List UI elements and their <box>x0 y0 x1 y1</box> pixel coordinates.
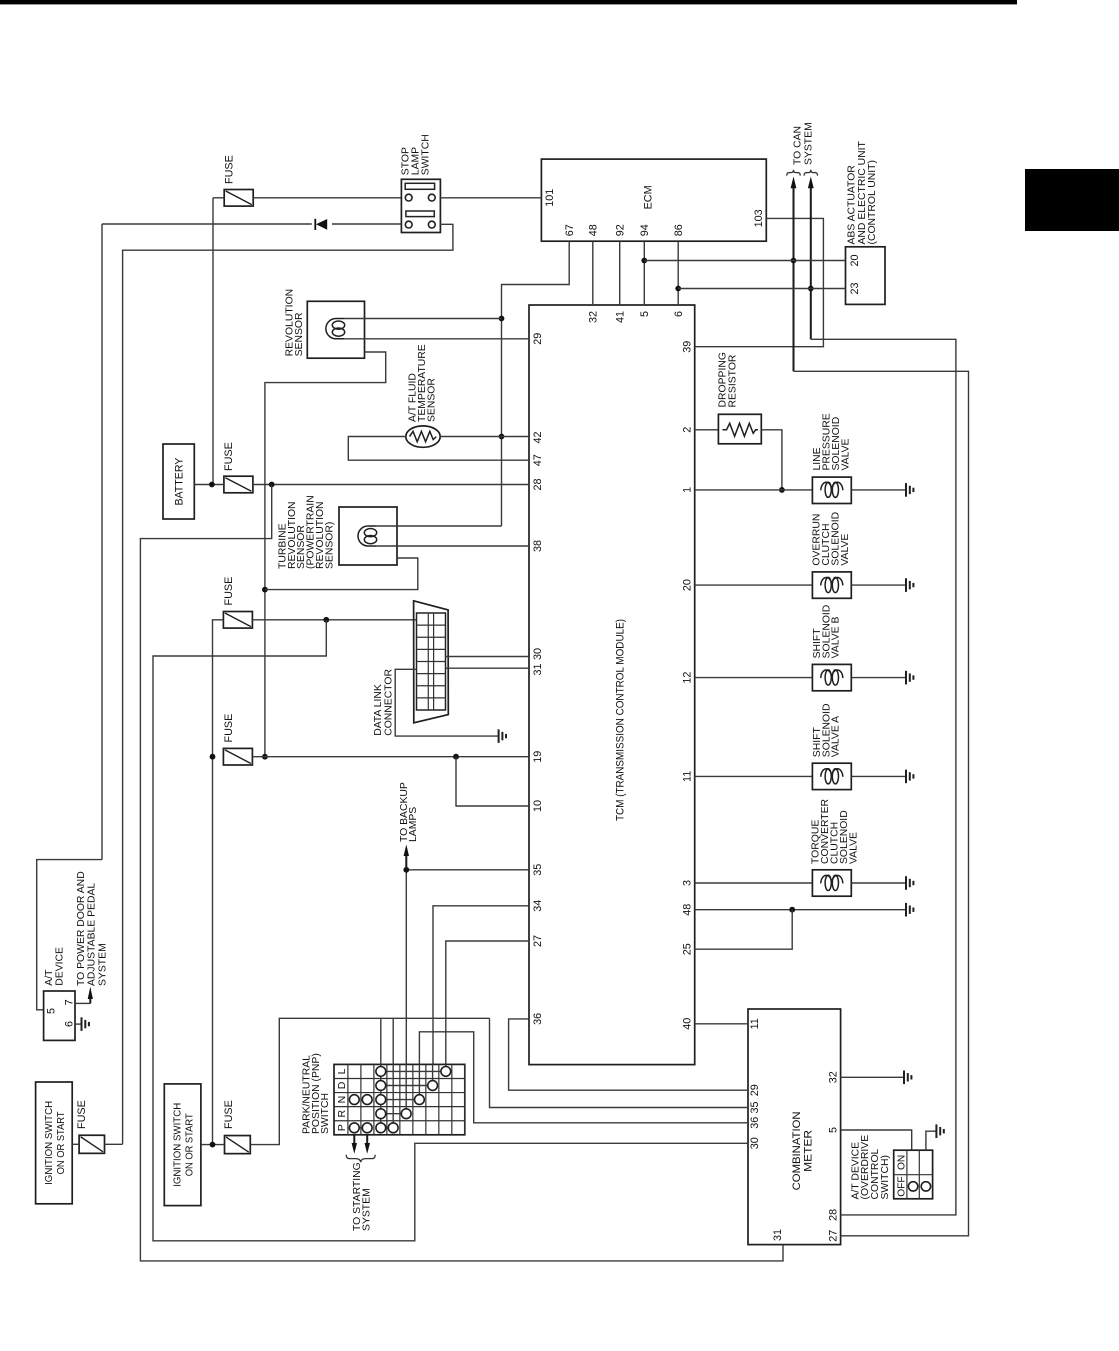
ground: TCM 48 <box>906 903 913 917</box>
junction: shield bus / revolution sensor <box>499 316 505 322</box>
svg-text:20: 20 <box>682 579 694 591</box>
shift solenoid valve B box <box>812 664 851 690</box>
svg-text:40: 40 <box>682 1018 694 1030</box>
ground: torque converter clutch solenoid <box>906 876 913 890</box>
svg-text:5: 5 <box>639 311 651 317</box>
svg-text:ON OR START: ON OR START <box>185 1113 196 1177</box>
svg-text:VALVE: VALVE <box>840 534 851 566</box>
svg-text:41: 41 <box>615 311 627 323</box>
wire: memory feed to combination meter 31 <box>140 485 783 1261</box>
wire/arrow: to backup lamps <box>405 855 407 870</box>
wire: fuse F2 to TCM 28 <box>253 484 529 486</box>
ECM box <box>541 159 766 241</box>
PNP contacts row P (c1-c2, c3-c4) <box>354 1127 367 1129</box>
svg-text:34: 34 <box>532 900 544 912</box>
svg-text:92: 92 <box>615 224 627 236</box>
svg-text:19: 19 <box>532 751 544 763</box>
svg-text:5: 5 <box>828 1127 840 1133</box>
svg-text:FUSE: FUSE <box>223 577 235 606</box>
svg-text:67: 67 <box>564 224 576 236</box>
svg-text:VALVE A: VALVE A <box>831 716 842 757</box>
wire: overdrive switch to ground <box>926 1131 937 1150</box>
svg-text:TO POWER DOOR AND: TO POWER DOOR AND <box>76 871 87 986</box>
wire: TCM 36 to combination meter 29 <box>509 1019 748 1090</box>
wire: stop lamp switch second output to ignition fuse F5 riser <box>123 224 453 1144</box>
wire: CAN-L to ABS pin 23 <box>678 288 845 290</box>
TCM box <box>529 305 695 1065</box>
junction: battery / F1 riser <box>209 482 215 488</box>
svg-text:SWITCH): SWITCH) <box>880 1155 891 1199</box>
wire: TCM 12 to shift solenoid B <box>695 677 813 679</box>
wire: fuse F1 input riser x=213 (battery node) <box>212 198 214 485</box>
junction: resistor / TCM 1 <box>779 487 785 493</box>
svg-text:12: 12 <box>682 672 694 684</box>
revolution sensor box <box>307 301 364 358</box>
svg-text:ECM: ECM <box>642 185 654 209</box>
svg-text:27: 27 <box>532 935 544 947</box>
ground: shift solenoid A <box>906 770 913 784</box>
svg-text:29: 29 <box>532 333 544 345</box>
wire: CAN-L trunk to combination meter 28 <box>811 339 956 1215</box>
overdrive control switch (A/T device) grid <box>894 1150 933 1199</box>
wire: PNP column wires inside grid <box>380 1064 382 1127</box>
data link connector shell <box>414 601 449 723</box>
svg-text:SENSOR): SENSOR) <box>324 522 335 569</box>
svg-text:94: 94 <box>639 224 651 236</box>
PNP contacts row R (c3-c5) <box>381 1113 406 1115</box>
svg-text:R: R <box>336 1109 348 1117</box>
wire: TCM 25 ground branch <box>695 910 793 950</box>
junction: CAN-H / ABS 20 branch <box>791 258 797 264</box>
ground: data link connector <box>499 729 506 743</box>
torque converter clutch solenoid valve box <box>812 870 851 896</box>
revolution sensor coil <box>326 319 345 339</box>
svg-text:42: 42 <box>532 431 544 443</box>
wire: TCM 11 to shift solenoid A <box>695 775 813 777</box>
svg-text:OFF: OFF <box>897 1176 908 1196</box>
svg-text:VALVE: VALVE <box>848 832 859 864</box>
svg-text:6: 6 <box>64 1021 76 1027</box>
wire: TCM 20 to overrun clutch solenoid <box>695 584 813 586</box>
wire: A/T device 6 to ground <box>75 1023 82 1025</box>
wire: turbine sensor shield to ground bus <box>265 558 418 590</box>
wire: solenoid to ground <box>851 775 906 777</box>
wire: solenoid to ground <box>851 489 906 491</box>
svg-text:20: 20 <box>849 254 861 266</box>
dropping resistor element <box>723 423 759 436</box>
svg-text:28: 28 <box>828 1209 840 1221</box>
svg-text:30: 30 <box>532 648 544 660</box>
junction: ground bus / pin19 feed <box>262 754 268 760</box>
svg-text:ADJUSTABLE PEDAL: ADJUSTABLE PEDAL <box>87 883 98 986</box>
svg-text:86: 86 <box>673 224 685 236</box>
wire: revolution sensor to TCM 29 <box>344 338 529 340</box>
wire: ECM 48 to TCM 32 <box>592 241 594 305</box>
ground: overdrive switch <box>936 1124 943 1138</box>
line pressure solenoid valve box <box>812 477 851 503</box>
ground: A/T device <box>82 1017 89 1031</box>
junction: ignition riser <box>210 1142 216 1148</box>
svg-text:SYSTEM: SYSTEM <box>97 943 108 986</box>
wire: fuse F3 to data link connector <box>252 619 416 621</box>
junction: ground bus / turbine sensor shield <box>262 587 268 593</box>
svg-text:SWITCH: SWITCH <box>420 134 431 175</box>
svg-text:31: 31 <box>532 663 544 675</box>
wire: F1 to stop lamp switch <box>213 197 224 199</box>
svg-text:36: 36 <box>749 1117 761 1129</box>
wire: battery to fuse F2 <box>194 484 224 486</box>
ignition switch 2 box <box>164 1084 201 1206</box>
svg-text:DEVICE: DEVICE <box>55 947 66 986</box>
wire: solenoid to ground <box>851 584 906 586</box>
wire: fuse F6 to PNP common column <box>250 1018 489 1144</box>
wire: dropping resistor to solenoid feed <box>761 430 782 490</box>
turbine revolution sensor box <box>339 507 397 565</box>
wire: branch to combination meter 30 <box>153 620 748 1241</box>
PNP contacts row N (c1,c2,c3-c6) <box>381 1099 420 1101</box>
wire: PNP c4 to combination meter 35 <box>392 1018 394 1064</box>
svg-text:FUSE: FUSE <box>223 442 235 471</box>
svg-text:27: 27 <box>828 1230 840 1242</box>
wire: ECM 94 to TCM 5 (CAN-H) <box>643 241 645 305</box>
ground: line pressure solenoid <box>906 483 913 497</box>
wire/arrow: A/T device 7 to power door system <box>75 1002 90 1004</box>
wire: stop lamp switch to ECM pin 101 <box>440 197 541 199</box>
svg-text:47: 47 <box>532 454 544 466</box>
junction: CAN-H at ECM 94 <box>641 258 647 264</box>
svg-text:SYSTEM: SYSTEM <box>361 1188 372 1231</box>
junction: CAN-L at ECM 86 <box>675 286 681 292</box>
junction: pin 10 branch <box>453 754 459 760</box>
svg-text:L: L <box>336 1068 348 1074</box>
svg-text:TCM (TRANSMISSION CONTROL MODU: TCM (TRANSMISSION CONTROL MODULE) <box>614 619 626 821</box>
shift solenoid valve A box <box>812 763 851 789</box>
svg-text:30: 30 <box>749 1137 761 1149</box>
svg-text:(CONTROL UNIT): (CONTROL UNIT) <box>867 160 878 244</box>
svg-text:P: P <box>336 1124 348 1131</box>
svg-text:D: D <box>336 1081 348 1089</box>
svg-text:FUSE: FUSE <box>223 714 235 743</box>
svg-text:35: 35 <box>749 1101 761 1113</box>
junction: shield bus / fluid temp sensor <box>499 434 505 440</box>
wire: ignition riser x=213 lower segment <box>213 620 224 1145</box>
turbine revolution sensor coil <box>358 526 377 546</box>
svg-text:CONNECTOR: CONNECTOR <box>384 669 395 736</box>
junction: TCM 25 branch <box>789 907 795 913</box>
wire: branch to TCM 10 <box>456 757 529 806</box>
PNP contacts row D (c3-c7) <box>381 1085 433 1087</box>
svg-text:6: 6 <box>673 311 685 317</box>
junction: memory feed branch <box>269 482 275 488</box>
wire: TCM 27 to PNP switch column L <box>446 941 529 1064</box>
wire: TCM 34 to PNP switch column D <box>433 906 529 1065</box>
wire: CAN-H to ABS pin 20 <box>644 260 845 262</box>
svg-text:3: 3 <box>682 880 694 886</box>
svg-text:32: 32 <box>588 311 600 323</box>
svg-text:29: 29 <box>749 1084 761 1096</box>
wire: turbine sensor to TCM 38 <box>376 545 529 547</box>
ground: shift solenoid B <box>906 671 913 685</box>
wire: fuse F4 to TCM 19 <box>252 756 529 758</box>
svg-text:101: 101 <box>544 189 556 207</box>
wire: TCM 3 to torque converter clutch solenoid <box>695 882 813 884</box>
svg-text:IGNITION SWITCH: IGNITION SWITCH <box>173 1103 184 1187</box>
svg-text:SWITCH: SWITCH <box>320 1093 331 1134</box>
ground: overrun clutch solenoid <box>906 578 913 592</box>
ground: combination meter <box>904 1071 911 1085</box>
svg-text:7: 7 <box>64 999 76 1005</box>
wire: TCM 48 to ground <box>695 909 906 911</box>
svg-text:VALVE B: VALVE B <box>831 617 842 659</box>
svg-text:11: 11 <box>682 771 694 782</box>
wire: TCM 1 to line pressure solenoid <box>695 489 813 491</box>
svg-text:BATTERY: BATTERY <box>174 458 186 506</box>
wire: revolution sensor to shield bus <box>344 318 502 320</box>
svg-text:1: 1 <box>682 487 694 493</box>
wire: ignition switch 2 output <box>201 1144 225 1146</box>
black header bar <box>0 0 1017 4</box>
junction: CAN-L / ABS 23 branch <box>808 286 814 292</box>
overrun clutch solenoid valve box <box>812 572 851 598</box>
brace marks over CAN arrows <box>787 170 800 176</box>
svg-text:28: 28 <box>532 478 544 490</box>
junction: meter 30 feed branch <box>323 617 329 623</box>
junction: riser / fuse F4 <box>210 754 216 760</box>
wire: CAN-H trunk with arrow to CAN system <box>793 188 795 372</box>
wire: CAN-L trunk with arrow to CAN system <box>810 188 812 340</box>
ABS actuator box <box>846 247 886 305</box>
wire: ECM 92 to TCM 41 <box>619 241 621 305</box>
wire: ECM 67 sensor shield bus <box>502 241 570 526</box>
stop lamp switch <box>401 179 440 232</box>
A/T fluid temperature sensor (thermistor) <box>406 426 440 447</box>
fuse F3 (data link) <box>223 612 252 629</box>
wire: data link connector to TCM 30 <box>446 656 530 658</box>
wire: TCM 2 to dropping resistor <box>695 429 719 431</box>
brace under starting-system arrows <box>346 1155 375 1162</box>
svg-text:METER: METER <box>803 1130 815 1172</box>
svg-text:39: 39 <box>682 341 694 353</box>
wire: temp sensor to TCM 42 <box>440 436 529 438</box>
svg-text:COMBINATION: COMBINATION <box>791 1111 803 1190</box>
svg-text:VALVE: VALVE <box>840 438 851 470</box>
wire: ECM 86 to TCM 6 (CAN-L) <box>677 241 679 305</box>
park/neutral position (PNP) switch grid <box>334 1064 465 1134</box>
wire: ECM 103 to TCM 39 <box>695 218 824 346</box>
svg-text:TO CAN: TO CAN <box>793 126 804 165</box>
svg-text:48: 48 <box>682 904 694 916</box>
junction: backup lamp branch <box>403 867 409 873</box>
fuse F6 (ignition 2) <box>225 1136 251 1154</box>
wire: TCM 35 to PNP switch column R <box>406 869 529 871</box>
fuse F5 (ignition 1) <box>79 1135 104 1153</box>
fuse F1 (stop lamp) <box>224 190 253 207</box>
wire: data link connector ground lead <box>395 669 498 736</box>
wire/arrows: PNP to starting system <box>353 1135 355 1146</box>
wire: diode branch to A/T device pin 5 <box>102 223 312 225</box>
svg-text:32: 32 <box>828 1071 840 1083</box>
wire: solenoid to ground <box>851 677 906 679</box>
svg-text:LAMPS: LAMPS <box>408 807 419 842</box>
wire: revolution sensor shield to ground bus x=265 <box>265 352 386 757</box>
svg-text:DATA LINK: DATA LINK <box>373 684 384 736</box>
svg-text:SYSTEM: SYSTEM <box>804 122 815 165</box>
svg-text:FUSE: FUSE <box>76 1100 88 1129</box>
svg-text:IGNITION SWITCH: IGNITION SWITCH <box>44 1101 55 1185</box>
PNP contacts row L (c3-c8) <box>381 1070 446 1072</box>
svg-text:FUSE: FUSE <box>223 1100 235 1129</box>
svg-text:31: 31 <box>772 1229 784 1241</box>
svg-text:ON: ON <box>897 1155 908 1170</box>
svg-text:RESISTOR: RESISTOR <box>728 354 739 407</box>
wire: x=102 riser down <box>101 224 103 860</box>
wire: solenoid to ground <box>851 882 906 884</box>
svg-text:38: 38 <box>532 540 544 552</box>
svg-text:10: 10 <box>532 800 544 812</box>
fuse F2 (battery) <box>224 476 253 493</box>
fuse F4 (TCM 19) <box>223 748 252 765</box>
svg-text:11: 11 <box>749 1018 761 1029</box>
wire: meter 32 to ground <box>841 1076 904 1078</box>
svg-text:23: 23 <box>849 282 861 294</box>
combination meter box <box>748 1009 841 1245</box>
svg-text:FUSE: FUSE <box>224 155 236 184</box>
svg-text:N: N <box>336 1096 348 1104</box>
svg-text:2: 2 <box>682 427 694 433</box>
dropping resistor box <box>718 414 761 444</box>
svg-text:36: 36 <box>532 1013 544 1025</box>
svg-text:25: 25 <box>682 943 694 955</box>
wire: data link connector to TCM 31 <box>446 667 530 669</box>
wire: ignition switch 1 to F5 to stop lamp circuit <box>72 1143 79 1145</box>
wire: to A/T device pin 5 <box>37 860 102 1010</box>
wire: meter 5 to overdrive switch <box>841 1130 912 1150</box>
ignition switch 1 box <box>36 1082 73 1204</box>
black tab (page corner marker) <box>1025 169 1119 231</box>
battery box <box>163 444 194 519</box>
svg-text:35: 35 <box>532 864 544 876</box>
wire: turbine sensor to shield bus <box>376 525 502 527</box>
wire: TCM 40 to combination meter 11 <box>695 1023 748 1025</box>
diode (stop lamp circuit) <box>315 219 327 230</box>
svg-text:5: 5 <box>45 1008 57 1014</box>
svg-text:103: 103 <box>753 209 765 227</box>
wire: temp sensor to TCM 47 <box>348 437 529 461</box>
svg-text:SENSOR: SENSOR <box>294 312 305 356</box>
svg-text:ON OR START: ON OR START <box>56 1111 67 1175</box>
wire: CAN-H trunk to combination meter 27 <box>794 371 969 1236</box>
A/T device box <box>44 991 75 1040</box>
svg-text:SENSOR: SENSOR <box>426 378 437 422</box>
svg-text:48: 48 <box>588 224 600 236</box>
wire: PNP c6 to combination meter 36 <box>419 1032 748 1123</box>
data link connector pin grid <box>417 613 446 710</box>
